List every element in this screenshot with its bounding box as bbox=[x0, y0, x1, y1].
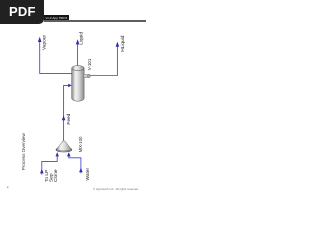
svg-text:Liquid: Liquid bbox=[78, 32, 84, 45]
svg-text:Feed: Feed bbox=[66, 113, 72, 124]
svg-text:© Hyprotech Ltd · All rights r: © Hyprotech Ltd · All rights reserved bbox=[93, 187, 138, 191]
svg-text:MIX-100: MIX-100 bbox=[78, 136, 83, 152]
svg-text:HLiquid: HLiquid bbox=[120, 35, 126, 52]
svg-text:Clone: Clone bbox=[53, 169, 59, 182]
svg-text:4: 4 bbox=[7, 186, 9, 190]
svg-text:V-101: V-101 bbox=[87, 58, 92, 70]
svg-text:Process Overview: Process Overview bbox=[21, 133, 26, 171]
svg-text:Water: Water bbox=[85, 167, 91, 180]
svg-text:Vapour: Vapour bbox=[41, 34, 47, 50]
